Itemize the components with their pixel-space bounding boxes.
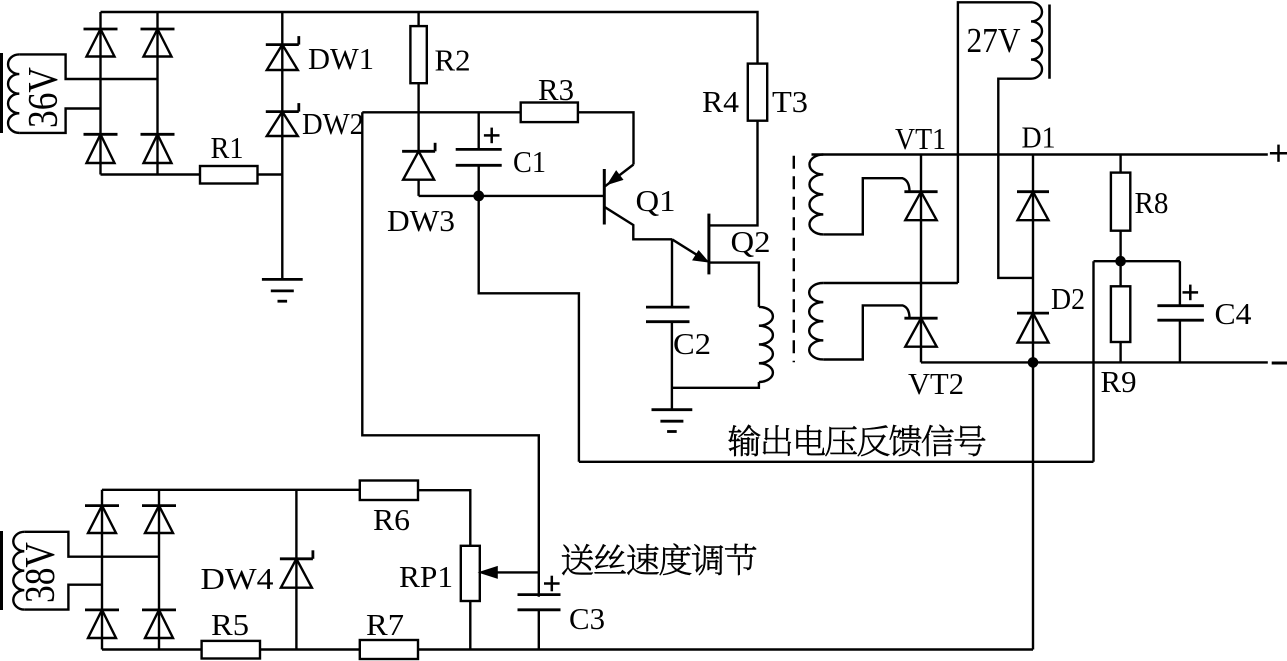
wire R3 to Q1 collector — [578, 112, 634, 164]
svg-text:VT1: VT1 — [895, 121, 946, 156]
transformer T2 38V winding — [13, 532, 24, 610]
wire DW3 anode lead — [417, 180, 419, 196]
wire R2 bottom lead — [417, 83, 419, 112]
resistor R4 — [748, 64, 767, 121]
svg-text:R3: R3 — [538, 72, 574, 107]
wire positive rail — [812, 153, 1268, 155]
transistor Q2 emitter — [709, 263, 759, 307]
wire C1 top lead — [478, 112, 480, 149]
wire R1 to DW column — [258, 173, 283, 175]
zener DW4 — [280, 557, 313, 560]
diode D2 — [1017, 312, 1049, 315]
ground below C2 — [652, 408, 693, 411]
thyristor VT2 — [904, 317, 937, 320]
svg-text:R5: R5 — [211, 607, 249, 642]
wire bridge1 left column — [99, 12, 101, 175]
svg-text:36V: 36V — [21, 67, 67, 128]
transformer 27V core — [1048, 5, 1051, 79]
potentiometer RP1 — [461, 546, 480, 601]
polarity + of C4 — [1183, 291, 1199, 294]
svg-text:27V: 27V — [967, 21, 1021, 60]
thyristor VT1 — [904, 190, 937, 193]
bridge1 diode bottom-left — [84, 133, 118, 136]
wire R8 bottom lead — [1119, 231, 1121, 262]
transistor Q1 emitter — [604, 207, 672, 240]
svg-text:Q1: Q1 — [636, 183, 676, 218]
wire RP1 wiper — [495, 571, 539, 573]
wire bridge2 bottom to R5 — [102, 648, 202, 650]
bridge2 diode bottom-right — [142, 609, 176, 612]
svg-text:D1: D1 — [1022, 120, 1056, 155]
transformer T3 secondary winding 1 — [809, 155, 823, 235]
svg-text:R7: R7 — [366, 607, 404, 642]
transformer T2 core — [0, 531, 3, 610]
wire C3 bottom lead — [538, 610, 540, 650]
ground below DW2 — [262, 278, 303, 281]
transformer T3 primary winding — [759, 307, 773, 382]
transistor Q1 bar — [603, 169, 606, 225]
svg-text:DW2: DW2 — [302, 106, 364, 141]
wire RP1 bottom lead — [469, 601, 471, 650]
svg-text:D2: D2 — [1051, 281, 1085, 316]
zener DW1 — [266, 43, 299, 46]
wire bridge2 top rail — [102, 489, 360, 491]
svg-text:R9: R9 — [1101, 364, 1137, 399]
wire bridge1 right column — [156, 12, 158, 175]
bridge2 diode top-left — [85, 504, 119, 507]
wire bottom rail — [418, 648, 1033, 650]
svg-text:Q2: Q2 — [731, 224, 771, 259]
resistor R6 — [360, 481, 418, 501]
resistor R7 — [360, 640, 418, 659]
wire C1 bottom lead — [478, 165, 480, 196]
zener DW3 — [402, 150, 435, 153]
capacitor C4 — [1157, 304, 1204, 307]
bridge2 diode bottom-left — [85, 609, 119, 612]
label shuchudianyafankuixinhao — [729, 425, 761, 456]
resistor R9 — [1111, 286, 1130, 342]
svg-text:DW4: DW4 — [201, 561, 275, 596]
svg-text:R4: R4 — [702, 84, 740, 119]
resistor R2 — [410, 26, 426, 83]
transistor Q2 bar — [707, 214, 710, 275]
resistor R3 — [521, 103, 578, 123]
junction node B — [1028, 357, 1039, 368]
wire VT1 gate — [823, 178, 909, 234]
transistor Q1 collector arrow — [609, 172, 623, 184]
wire T1 top lead to bridge — [19, 54, 157, 79]
bridge1 diode top-left — [84, 28, 118, 31]
wire R9 leads — [1119, 261, 1121, 286]
polarity + of C1 — [484, 134, 500, 137]
wire R8 top lead — [1119, 155, 1121, 173]
svg-text:R8: R8 — [1135, 185, 1169, 220]
wire DW3 cathode lead — [417, 112, 419, 151]
diode D1 — [1017, 190, 1049, 193]
wire feedback riser — [1092, 261, 1094, 462]
wire node down-left branch — [362, 112, 539, 597]
svg-text:R2: R2 — [435, 43, 471, 78]
wire DW4 column — [295, 490, 297, 650]
svg-text:C2: C2 — [673, 326, 711, 361]
wire R5 to R7 — [260, 648, 360, 650]
resistor R5 — [202, 641, 260, 659]
svg-text:DW1: DW1 — [308, 41, 374, 76]
wire D column to bottom rail — [1032, 362, 1034, 649]
svg-text:R6: R6 — [373, 502, 410, 537]
capacitor C3 — [518, 593, 561, 596]
wire top rail — [101, 12, 758, 64]
polarity + of C3 — [544, 582, 560, 585]
capacitor C2 — [646, 306, 690, 309]
wire R6 to RP1 top — [418, 490, 470, 546]
wire T1 bottom lead to bridge — [19, 109, 100, 133]
bridge2 diode top-right — [142, 504, 176, 507]
zener DW2 — [266, 110, 299, 113]
svg-text:C3: C3 — [569, 601, 605, 636]
wire bridge1 bottom — [101, 173, 201, 175]
wire negative rail — [921, 361, 1268, 363]
wire DW column — [281, 12, 283, 279]
svg-text:C4: C4 — [1215, 296, 1253, 331]
wire bridge2 right column — [158, 490, 160, 650]
svg-text:T3: T3 — [772, 84, 808, 119]
svg-text:RP1: RP1 — [399, 559, 453, 594]
wire T3 primary bottom — [672, 382, 759, 388]
transformer T3 core (dashed) — [793, 156, 795, 363]
wire C4 bottom lead — [1179, 320, 1181, 362]
wire 27V bottom lead — [998, 79, 1033, 278]
svg-text:VT2: VT2 — [908, 366, 964, 401]
arrow RP1 wiper — [480, 567, 497, 578]
label + output — [1270, 152, 1287, 155]
wire T2 bottom lead to bridge — [24, 585, 102, 610]
wire feedback staircase — [479, 196, 579, 462]
svg-text:R1: R1 — [211, 130, 244, 165]
transformer T3 secondary winding 2 — [809, 283, 823, 359]
transformer 27V winding — [1031, 2, 1042, 78]
resistor R1 — [200, 166, 258, 184]
transistor Q1 collector — [605, 165, 634, 187]
bridge1 diode bottom-right — [141, 133, 175, 136]
wire feedback signal — [579, 461, 1094, 463]
wire D column — [1032, 155, 1034, 363]
svg-text:38V: 38V — [18, 542, 64, 603]
wire emitter to Q2 — [672, 239, 706, 260]
wire C2 bottom lead — [671, 322, 673, 410]
wire VT column — [920, 155, 922, 363]
junction node C — [1115, 256, 1126, 267]
transformer T1 36V winding — [8, 54, 19, 132]
arrow into Q2 — [693, 251, 707, 261]
capacitor C1 — [456, 148, 502, 151]
label songsisudutiaojie — [562, 544, 593, 575]
transistor Q2 collector — [709, 121, 758, 226]
resistor R8 — [1111, 173, 1130, 231]
wire emitter node to C2 — [671, 239, 673, 307]
wire DW2 node to R3 — [362, 111, 520, 113]
wire C4 top lead — [1179, 261, 1181, 306]
svg-text:C1: C1 — [513, 144, 546, 179]
wire bridge2 left column — [101, 490, 103, 650]
wire sample node — [1094, 260, 1180, 262]
label - output — [1272, 362, 1287, 365]
wire 27V top lead — [958, 2, 1031, 283]
transformer T1 core — [0, 53, 3, 133]
wire T2 top lead to bridge — [24, 532, 159, 557]
svg-text:DW3: DW3 — [387, 203, 455, 238]
wire R2 top lead — [417, 12, 419, 26]
wire winding2 top to 27V tap — [823, 282, 958, 284]
wire VT2 gate — [823, 305, 909, 359]
junction node A — [473, 191, 484, 202]
wire DW3/C1 to Q1 base — [419, 195, 605, 197]
bridge1 diode top-right — [141, 28, 175, 31]
